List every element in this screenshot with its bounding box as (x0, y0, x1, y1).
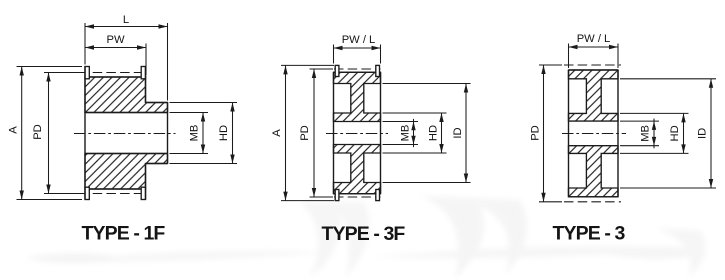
P1 bore bottom line (85, 153, 168, 155)
P3 dim ID ext top (620, 78, 716, 80)
P2 flange top-left (335, 65, 339, 76)
svg-text:A: A (271, 129, 283, 137)
P3 right face (617, 70, 619, 197)
svg-text:MB: MB (640, 125, 652, 142)
P1 dim L ext left (84, 23, 86, 65)
P2 dim HD ext top (383, 112, 447, 114)
P1 right rim face upper (145, 67, 147, 103)
P2 dim MB ext top (383, 121, 419, 123)
P1 rim OD bottom (89, 188, 141, 190)
P2 dim A ext top (281, 64, 334, 66)
P1 flange bottom-left (85, 187, 89, 199)
P2 flange top-right (376, 65, 380, 76)
P1 dim A ext bottom (17, 199, 83, 201)
P3 dim PWL ext right (617, 44, 619, 69)
P1 dim MB ext bottom (170, 153, 209, 155)
P3 hatch upper section (569, 70, 619, 121)
P1 dim A line (21, 67, 23, 200)
P1 hub bottom line (146, 163, 168, 165)
P2 dim A line (285, 65, 287, 200)
P1 dim L ext right (167, 23, 169, 101)
P1 bore top line (85, 112, 168, 114)
svg-text:PD: PD (32, 124, 44, 140)
P3 dim PD line (543, 65, 545, 202)
svg-text:ID: ID (452, 127, 464, 138)
svg-text:TYPE - 1F: TYPE - 1F (82, 223, 166, 245)
P2 dim PD ext top (310, 68, 334, 70)
P2 dim HD line (441, 113, 443, 153)
P2 hatch lower section (334, 145, 381, 194)
P2 dim ID ext bottom (383, 182, 471, 184)
P3 dim MB line (653, 119, 655, 149)
P1 dim HD ext bottom (170, 163, 238, 165)
P2 hatch upper section (334, 72, 381, 121)
P2 pitch line top (334, 68, 381, 70)
P2 flange bottom-right (376, 190, 380, 201)
P1 dim PW ext right (145, 44, 147, 76)
svg-text:PW / L: PW / L (342, 34, 376, 46)
P3 pitch line top (564, 64, 621, 66)
P2 centerline (326, 133, 388, 135)
P1 dim PD line (48, 73, 50, 194)
P3 pitch line bottom (564, 201, 621, 203)
svg-text:HD: HD (669, 125, 681, 141)
P1 rim OD top (89, 76, 141, 78)
P1 hatch lower body (85, 154, 168, 190)
svg-text:HD: HD (218, 125, 230, 141)
P2 dim PWL ext left (333, 45, 335, 64)
P2 right face (380, 72, 382, 193)
P3 left face (568, 70, 570, 197)
P2 dim PD ext bottom (310, 196, 334, 198)
svg-text:A: A (8, 126, 20, 134)
P2 dim ID ext top (383, 83, 471, 85)
P1 flange bottom-right (141, 187, 145, 199)
P2 dim ID line (465, 84, 467, 183)
P2 rim OD bottom (334, 193, 381, 195)
P2 left face (333, 72, 335, 193)
P1 dim PW line (85, 47, 146, 49)
P2 dim HD ext bottom (383, 152, 447, 154)
P1 hub top line (146, 102, 168, 104)
P2 dim MB line (413, 119, 415, 147)
P1 flange top-left (85, 67, 89, 79)
P3 dim HD ext top (620, 112, 689, 114)
P1 dim A ext top (17, 66, 83, 68)
P1 dim PD ext top (44, 72, 80, 74)
P2 dim PD line (313, 69, 315, 197)
svg-text:L: L (123, 14, 129, 26)
P3 dim PWL ext left (568, 44, 570, 69)
P1 dim PD ext bottom (44, 193, 80, 195)
svg-text:PW: PW (106, 34, 124, 46)
P1 centerline (74, 133, 176, 135)
P3 dim ID line (710, 79, 712, 188)
P1 flange top-right (141, 67, 145, 79)
P1 dim HD ext top (170, 102, 238, 104)
svg-text:ID: ID (697, 128, 709, 139)
svg-text:PD: PD (299, 125, 311, 141)
svg-text:HD: HD (428, 125, 440, 141)
P2 flange bottom-left (335, 190, 339, 201)
P1 left face (84, 67, 86, 200)
P3 dim HD ext bottom (620, 152, 689, 154)
P2 pitch line bottom (334, 196, 381, 198)
P1 dim MB line (202, 113, 204, 154)
P1 pitch line bottom (79, 193, 146, 195)
P3 hatch lower section (569, 146, 619, 197)
P3 dim MB ext bottom (620, 145, 659, 147)
P1 dim MB ext top (170, 112, 209, 114)
P3 dim PD ext bottom (539, 201, 562, 203)
P1 pitch line top (79, 72, 146, 74)
P1 hatch upper body (85, 77, 168, 113)
P3 dim PD ext top (539, 64, 562, 66)
svg-text:MB: MB (400, 125, 412, 142)
svg-text:MB: MB (189, 125, 201, 142)
P1 right rim face lower (145, 164, 147, 200)
P3 dim ID ext bottom (620, 187, 716, 189)
svg-text:PW / L: PW / L (577, 33, 611, 45)
P2 dim PWL line (334, 47, 381, 49)
P1 hub right face (167, 103, 169, 164)
P1 dim L line (85, 26, 168, 28)
svg-text:TYPE - 3F: TYPE - 3F (322, 223, 406, 245)
watermark (25, 196, 710, 278)
P3 rim OD bottom (569, 196, 619, 198)
P1 dim HD line (232, 103, 234, 164)
svg-text:TYPE - 3: TYPE - 3 (553, 223, 626, 245)
P3 rim OD top (569, 69, 619, 71)
P3 dim HD line (683, 113, 685, 153)
P2 dim MB ext bottom (383, 144, 419, 146)
P3 dim PWL line (569, 46, 619, 48)
P2 dim PWL ext right (380, 45, 382, 64)
P3 centerline (562, 133, 626, 135)
P3 dim MB ext top (620, 120, 659, 122)
P2 rim OD top (334, 71, 381, 73)
svg-text:PD: PD (530, 125, 542, 141)
P2 dim A ext bottom (281, 200, 334, 202)
